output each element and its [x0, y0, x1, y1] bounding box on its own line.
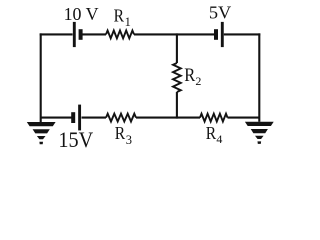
svg-text:1: 1 — [125, 15, 131, 29]
svg-text:2: 2 — [195, 74, 201, 88]
svg-text:3: 3 — [126, 133, 132, 147]
svg-text:R: R — [115, 123, 125, 143]
svg-text:15V: 15V — [58, 127, 93, 152]
svg-text:4: 4 — [216, 132, 222, 146]
svg-text:5V: 5V — [209, 3, 231, 23]
svg-text:R: R — [184, 65, 195, 86]
svg-text:10 V: 10 V — [64, 4, 99, 24]
svg-text:R: R — [114, 6, 124, 26]
svg-text:R: R — [206, 123, 216, 143]
